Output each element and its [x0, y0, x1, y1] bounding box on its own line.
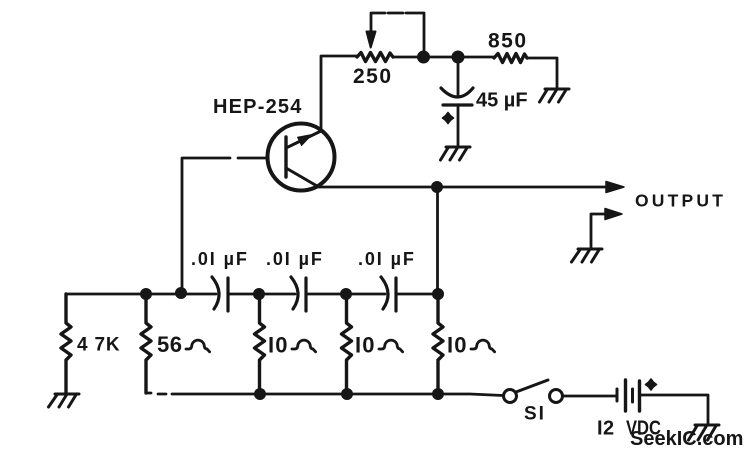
ground at 47K	[49, 394, 80, 407]
wire battery to ground	[640, 395, 708, 424]
wire emitter to pot left	[321, 56, 357, 130]
node rail 10a top	[253, 288, 265, 300]
svg-text:45 µF: 45 µF	[476, 90, 528, 112]
node rail 56 top	[140, 288, 152, 300]
switch S1 lever	[516, 380, 548, 392]
ground at output	[572, 249, 603, 262]
capacitor C1 straight plate	[226, 278, 229, 311]
switch S1 right contact	[550, 390, 563, 403]
svg-text:OUTPUT: OUTPUT	[635, 191, 726, 211]
node rail 10c top	[432, 288, 444, 300]
capacitor C3 straight plate	[394, 278, 397, 311]
wire ladder top rail left	[66, 293, 216, 296]
resistor R 10a	[255, 294, 265, 394]
capacitor C3 .01uF curved plate	[381, 277, 388, 309]
plus sign battery	[646, 379, 657, 390]
node rail base column	[175, 287, 187, 299]
svg-text:SI: SI	[524, 404, 546, 425]
svg-text:I2: I2	[597, 418, 615, 440]
omega 10c	[471, 340, 495, 352]
omega 10a	[292, 340, 316, 352]
output arrowhead	[606, 182, 624, 193]
capacitor C2 .01uF curved plate	[291, 277, 298, 309]
node rail 10c bottom	[432, 388, 444, 400]
wire 45uF to ground	[457, 105, 460, 146]
svg-text:HEP-254: HEP-254	[213, 96, 303, 118]
wire collector node down to ladder	[436, 187, 439, 294]
potentiometer wiper arrow	[370, 31, 373, 36]
svg-text:.0I µF: .0I µF	[358, 249, 416, 269]
plus sign 45uF	[443, 113, 454, 124]
capacitor C 45uF straight plate	[443, 103, 472, 106]
capacitor C2 straight plate	[304, 278, 307, 311]
resistor R 56	[141, 294, 151, 393]
svg-text:I0: I0	[268, 333, 289, 358]
arrowhead ground stub	[605, 209, 622, 220]
node rail 10b top	[340, 288, 352, 300]
node junction cap45 tap	[452, 51, 465, 64]
svg-text:VDC: VDC	[626, 418, 661, 440]
transistor emitter diagonal	[286, 131, 321, 148]
resistor R 47K	[61, 294, 71, 393]
node collector junction	[431, 181, 443, 193]
capacitor C1 .01uF curved plate	[212, 277, 219, 309]
svg-text:56: 56	[157, 332, 182, 357]
resistor R 850	[494, 54, 527, 63]
wire rail seg2	[228, 293, 295, 296]
wire bottom rail	[146, 393, 503, 396]
svg-text:I0: I0	[447, 333, 468, 358]
wire base lead	[182, 158, 267, 294]
transistor Q1 HEP-254 circle	[268, 124, 335, 191]
omega 56	[186, 340, 210, 352]
svg-text:.0I µF: .0I µF	[191, 249, 249, 269]
wire 850 to ground	[527, 58, 557, 88]
ground at 45uF	[441, 147, 471, 160]
wire node to 45uF cap	[457, 57, 460, 95]
omega 10b	[379, 340, 403, 352]
wire collector to output	[317, 186, 606, 189]
svg-text:4 7K: 4 7K	[77, 335, 120, 356]
svg-text:.0I µF: .0I µF	[266, 249, 324, 269]
wire switch to battery	[563, 395, 617, 398]
node rail 10a bottom	[254, 388, 266, 400]
wire output ground stub arrow	[591, 214, 605, 248]
switch S1 left contact	[504, 390, 517, 403]
transistor base bar	[284, 137, 287, 177]
battery B1 plates	[616, 389, 619, 401]
ground at battery	[689, 425, 720, 440]
ground at 850	[540, 89, 570, 102]
svg-text:850: 850	[488, 30, 528, 53]
wire rail seg4	[396, 293, 438, 296]
svg-text:I0: I0	[355, 333, 376, 358]
transistor collector diagonal	[286, 168, 317, 186]
transistor emitter arrowhead	[298, 135, 313, 146]
node junction pot-loop	[417, 51, 430, 64]
wire pot right to node	[393, 56, 494, 59]
svg-text:250: 250	[353, 65, 393, 88]
resistor R 10c	[433, 294, 443, 394]
capacitor C 45uF curved plate	[441, 88, 473, 97]
wire rail seg3	[306, 293, 385, 296]
node rail 10b bottom	[341, 388, 353, 400]
wire pot feedback loop top	[371, 13, 424, 55]
resistor R 10b	[342, 294, 352, 394]
resistor 250 (potentiometer)	[357, 53, 393, 62]
